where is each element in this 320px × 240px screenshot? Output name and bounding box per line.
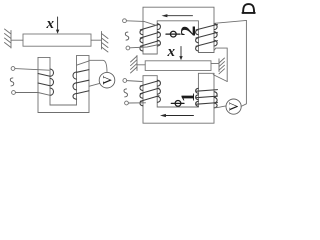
label phi1: phi glyph (rotated) bbox=[171, 101, 184, 107]
bottom core right leg top cap bbox=[198, 72, 214, 74]
left-side arcs bbox=[140, 30, 143, 35]
arrow for x (down) bbox=[179, 47, 182, 61]
mid-right support wall bbox=[218, 59, 220, 72]
wire: bottom-right coil to voltmeter bbox=[215, 106, 227, 108]
right-side arcs bbox=[158, 24, 161, 30]
right-side arcs bbox=[158, 80, 161, 86]
mid-left support hatching bbox=[131, 56, 138, 73]
left-side arcs bbox=[196, 88, 199, 93]
voltmeter V (right diagram) bbox=[226, 99, 241, 114]
terminal circle 2 (bottom group) bbox=[125, 101, 129, 105]
coil arcs right side bbox=[50, 69, 53, 76]
svg-text:V: V bbox=[226, 101, 241, 111]
left support hatching bbox=[5, 29, 12, 48]
primary coil W1 on left leg bbox=[38, 69, 54, 95]
coil on bottom-left leg bbox=[140, 80, 160, 106]
wire: terminal 1 to coil bbox=[15, 69, 49, 71]
wire terminal1 to coil bbox=[127, 80, 142, 83]
wire: terminal 2 to coil bbox=[15, 93, 50, 96]
right fixed support wall bbox=[101, 32, 103, 50]
wire: top-right coil bottom to series link bbox=[214, 48, 227, 81]
flux arrow phi2 (top yoke, pointing left) bbox=[162, 14, 193, 17]
coil on top-right leg bbox=[196, 24, 218, 51]
svg-text:x: x bbox=[167, 44, 176, 60]
top core left leg bottom cap bbox=[143, 53, 157, 55]
diagonals bbox=[196, 24, 217, 46]
flux arrow phi1 (bottom yoke, pointing left) bbox=[160, 114, 194, 117]
left leg top cap bbox=[38, 56, 50, 58]
coil on top-left leg bbox=[140, 24, 160, 51]
top core window bbox=[157, 21, 198, 54]
wire terminal1 to coil bbox=[126, 21, 157, 26]
diagonals bbox=[196, 90, 217, 105]
terminal circle 1 (bottom group) bbox=[123, 79, 127, 83]
arrow for x (down) bbox=[56, 17, 59, 34]
wire: coil bottom to voltmeter bbox=[89, 83, 100, 86]
wire: voltmeter to right bus bbox=[241, 20, 246, 106]
wire: coil top to voltmeter bbox=[89, 60, 107, 72]
mid-left support wall bbox=[136, 56, 138, 71]
wire terminal2 to coil bbox=[130, 45, 159, 48]
mid-right support hatching bbox=[219, 58, 225, 74]
coil on bottom-right leg bbox=[196, 88, 218, 108]
svg-text:x: x bbox=[45, 16, 54, 32]
AC squiggle (top group) bbox=[125, 32, 128, 40]
wire: coil diagonal lead top bbox=[77, 61, 90, 65]
top core outer edge bbox=[143, 7, 214, 54]
diagonals bbox=[140, 81, 159, 102]
terminal circle 2 (left diagram bottom) bbox=[12, 91, 16, 95]
label D (rotated) bbox=[242, 4, 254, 13]
U-core (left diagram) outer edge bbox=[38, 56, 89, 113]
beam (armature) left diagram bbox=[23, 34, 91, 46]
wire: beam to right wall bbox=[211, 62, 219, 64]
terminal circle 2 (top group) bbox=[126, 46, 130, 50]
terminal circle 1 (right diagram top group) bbox=[123, 19, 127, 23]
coil arcs left side bbox=[73, 72, 76, 79]
AC squiggle (left diagram) bbox=[10, 78, 13, 86]
right leg top cap bbox=[77, 55, 90, 57]
left-side arcs bbox=[140, 86, 143, 91]
left fixed support wall bbox=[10, 31, 12, 49]
AC squiggle (bottom group) bbox=[124, 89, 127, 97]
right support hatching bbox=[102, 34, 109, 53]
wire: series link to bottom-right coil bbox=[213, 75, 227, 82]
wire terminal2 to coil bbox=[128, 102, 145, 104]
right-side arcs bbox=[214, 92, 217, 98]
beam (armature) right diagram bbox=[145, 61, 211, 71]
secondary coil W2 on right leg bbox=[73, 70, 89, 100]
diagonals bbox=[140, 24, 159, 46]
wire: beam to right wall connector bbox=[91, 39, 102, 41]
bottom core outer edge bbox=[143, 73, 214, 123]
svg-text:V: V bbox=[99, 75, 114, 85]
label phi2: phi glyph (rotated) bbox=[166, 31, 180, 37]
terminal circle 1 (left diagram top) bbox=[11, 67, 15, 71]
U-core window inner edge bbox=[50, 56, 77, 105]
right-side arcs bbox=[214, 24, 217, 30]
wire: wall to beam connector bbox=[11, 39, 23, 41]
top core right leg bottom cap bbox=[198, 52, 214, 54]
coil diagonals across leg bbox=[77, 70, 90, 94]
wire: top-right coil to right bus (top) bbox=[214, 20, 246, 23]
coil diagonals across leg bbox=[38, 74, 50, 86]
bottom core left leg top cap bbox=[143, 75, 157, 77]
bottom core window bbox=[157, 73, 198, 107]
wire: wall to beam bbox=[137, 64, 145, 66]
left-side arcs bbox=[196, 30, 199, 35]
voltmeter V (left diagram) bbox=[99, 72, 115, 88]
